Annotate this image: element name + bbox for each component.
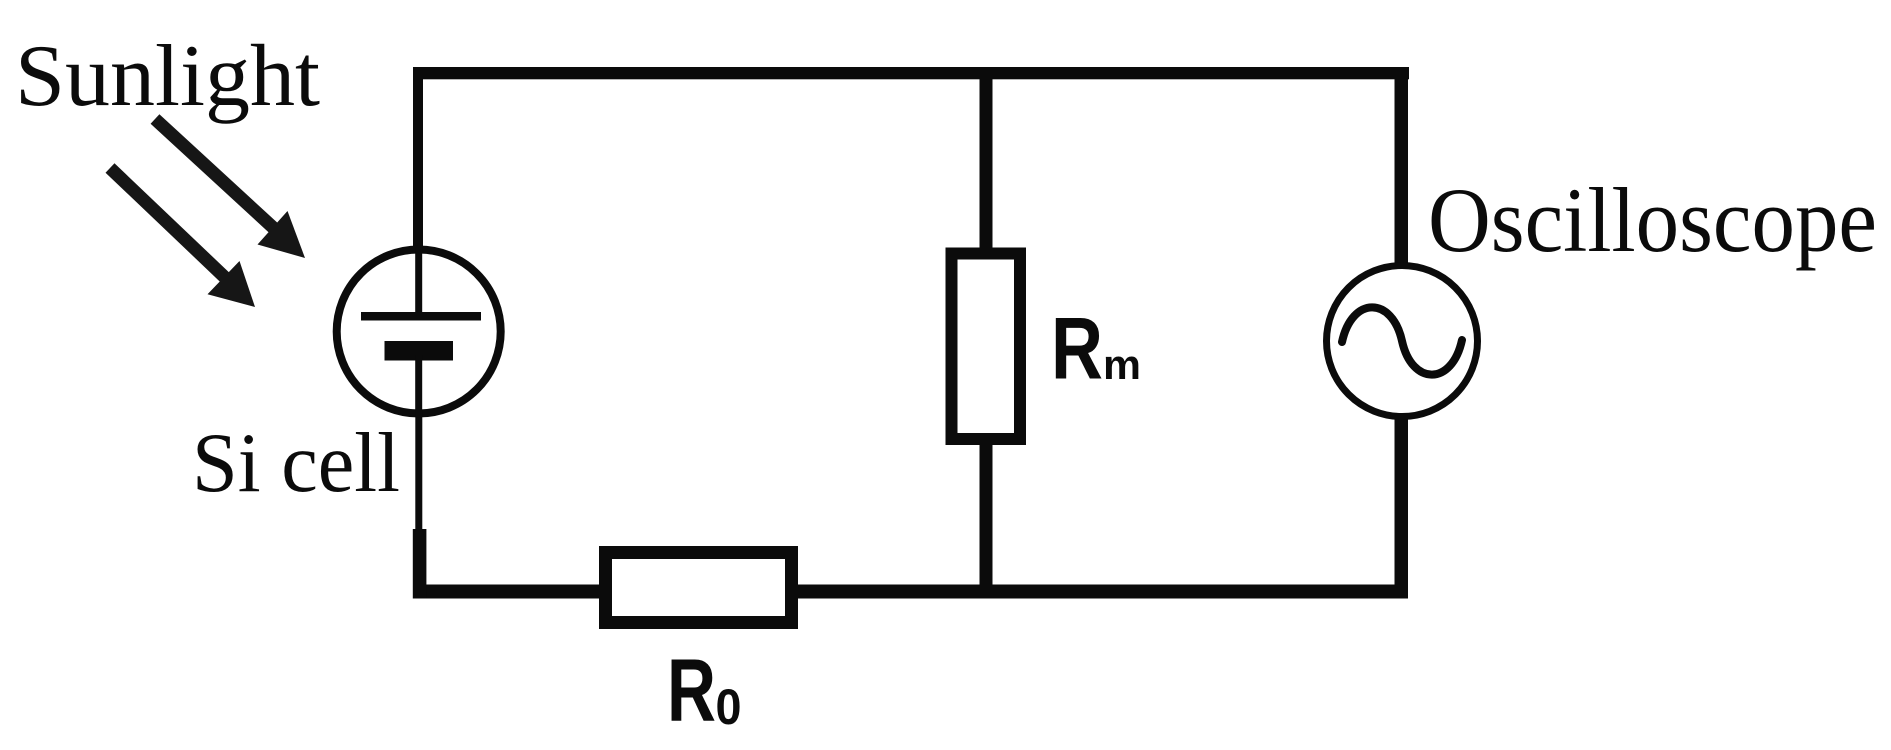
svg-text:R: R (1051, 299, 1103, 398)
svg-text:R: R (667, 640, 716, 740)
svg-text:Si cell: Si cell (192, 416, 400, 510)
svg-text:0: 0 (716, 679, 742, 735)
svg-text:Sunlight: Sunlight (15, 28, 320, 125)
svg-text:Oscilloscope: Oscilloscope (1428, 169, 1877, 271)
svg-text:m: m (1103, 341, 1141, 388)
